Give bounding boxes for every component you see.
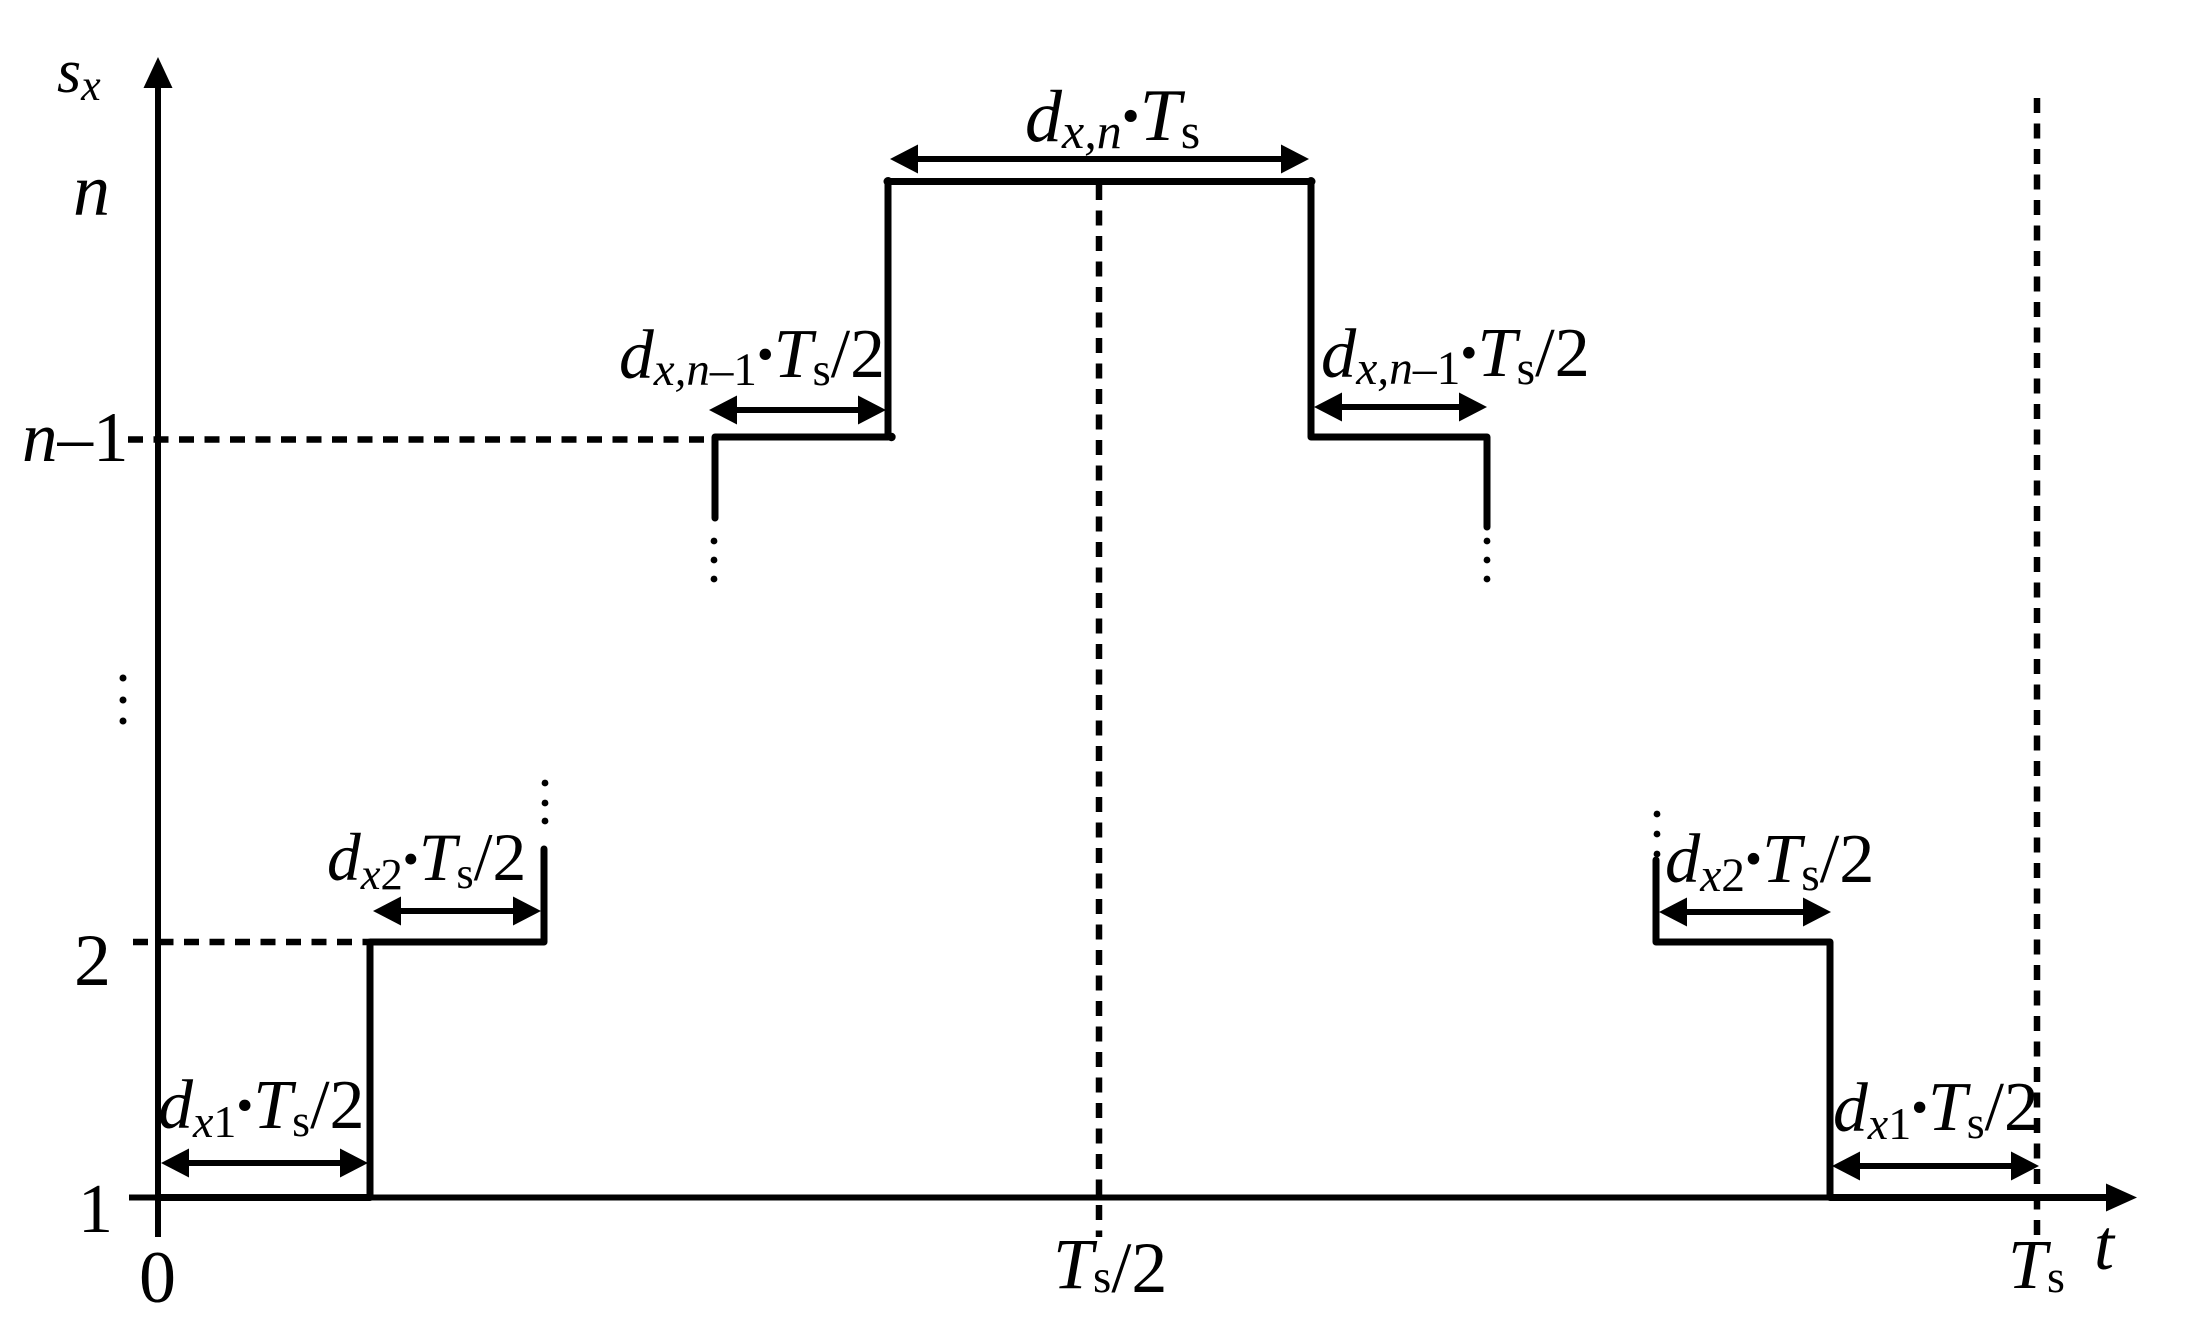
svg-text:dx1•Ts/2: dx1•Ts/2 [158, 1067, 365, 1147]
dimension arrow dx,n*Ts top [890, 145, 1309, 174]
dimension arrow dx2*Ts/2 left [373, 897, 541, 926]
y-axis ellipsis between 2 and n-1 [120, 675, 127, 682]
cap blob right end of left n-1 plateau [887, 433, 895, 441]
ellipsis above left level-2 stub [542, 780, 549, 787]
ellipsis below left n-1 stub [711, 538, 718, 545]
svg-text:n: n [73, 150, 110, 232]
svg-text:t: t [2094, 1205, 2116, 1285]
svg-text:dx1•Ts/2: dx1•Ts/2 [1833, 1069, 2039, 1149]
dashed line Ts/2 [1096, 185, 1103, 1237]
ellipsis below right n-1 stub [1484, 538, 1491, 545]
svg-text:2: 2 [74, 920, 111, 1002]
waveform segment right (levels 2-1) [1656, 860, 2108, 1198]
node dot top-right corner of level n [1307, 177, 1316, 186]
node dot top-left corner of level n [884, 177, 893, 186]
x axis (t) [129, 1184, 2137, 1212]
dimension arrow dx2*Ts/2 right [1659, 898, 1831, 927]
dimension arrow dx1*Ts/2 right [1832, 1152, 2039, 1181]
ellipsis above right level-2 stub [1654, 811, 1661, 818]
svg-text:0: 0 [139, 1237, 176, 1319]
svg-text:1: 1 [78, 1171, 113, 1248]
y axis (s_x) [144, 57, 173, 1237]
svg-text:n–1: n–1 [22, 399, 129, 477]
svg-text:dx2•Ts/2: dx2•Ts/2 [1665, 820, 1874, 902]
waveform segment left (levels 1-2) [158, 849, 544, 1198]
dashed level line 2 [133, 939, 369, 946]
dimension arrow dx1*Ts/2 left [161, 1149, 368, 1178]
dashed line Ts [2034, 98, 2041, 1237]
dimension arrow dx,n-1*Ts/2 right [1314, 393, 1487, 422]
dashed level line n-1 [128, 436, 713, 443]
svg-text:dx2•Ts/2: dx2•Ts/2 [327, 820, 526, 899]
dimension arrow dx,n-1*Ts/2 left [709, 396, 886, 425]
waveform segment middle (levels n-1, n) [715, 182, 1487, 528]
